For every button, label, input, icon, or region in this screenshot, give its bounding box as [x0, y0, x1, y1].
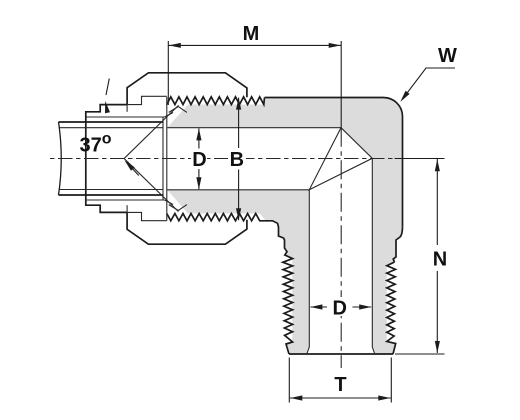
stem male taper thread, right side (zigzag) — [387, 262, 396, 354]
nut internal step lines (top) — [127, 96, 167, 104]
fitting body (sectioned, gray) upper/right wall — [167, 98, 402, 355]
37deg leader arrow — [128, 164, 139, 176]
svg-text:M: M — [243, 23, 260, 45]
sleeve front chamfers — [165, 113, 173, 118]
svg-text:B: B — [230, 149, 244, 171]
nut internal step lines (bottom) — [127, 212, 167, 220]
svg-text:W: W — [438, 45, 457, 67]
nut thread-relief vee bottom — [169, 205, 187, 211]
tube nut hex silhouette — [127, 73, 247, 105]
stem male taper thread, left side (zigzag) — [167, 214, 293, 355]
tube outer walls — [59, 121, 164, 123]
dimension T: extension lines — [288, 358, 290, 403]
body male thread, bottom (zigzag) handled above; body face line — [166, 97, 168, 221]
nut rear collar outline — [86, 105, 127, 213]
dimension M: extension lines — [167, 41, 169, 105]
svg-text:T: T — [334, 374, 346, 396]
sleeve outer lines — [86, 116, 165, 118]
dimension D (stem bore): horizontal arrows — [310, 306, 327, 308]
body right edge chamfer to stem thread — [393, 227, 402, 262]
tube inner walls — [60, 127, 164, 129]
nut thread-relief vee top — [169, 107, 187, 113]
flare cone seat line (bottom) — [124, 159, 178, 212]
N top extension line (centerline extension) — [395, 158, 445, 160]
tube break (left end) — [59, 122, 62, 195]
stem bore walls — [307, 190, 310, 354]
dimension D (bore): vertical double arrow — [198, 128, 200, 148]
dimension B: vertical double arrow — [238, 98, 240, 148]
flare cone seat line (top) — [124, 105, 178, 158]
internal cone triangle of elbow — [309, 128, 372, 190]
svg-text:N: N — [433, 249, 447, 271]
bore wall lines (horizontal arm) — [167, 127, 341, 129]
fitting body (sectioned, gray) lower/left stem wall — [167, 190, 309, 354]
horizontal centerline — [50, 158, 396, 160]
dimension T: line with arrows — [290, 397, 391, 399]
dimension M: line with arrows — [168, 44, 341, 46]
body outer top edge and rounded corner — [265, 98, 403, 227]
unlabeled leader arrow at nut rear — [106, 79, 109, 96]
stem bottom face — [289, 353, 393, 355]
vertical centerline of stem — [340, 128, 342, 368]
sleeve back face — [162, 117, 164, 200]
svg-text:D: D — [332, 298, 346, 320]
svg-text:D: D — [192, 149, 206, 171]
dimension N: extension + line — [395, 353, 445, 355]
body male thread, top (zigzag) — [167, 97, 265, 105]
